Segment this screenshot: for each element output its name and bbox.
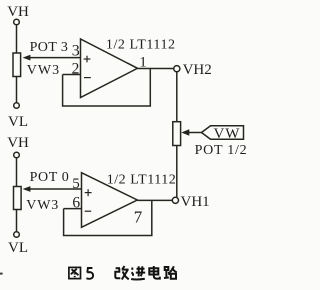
- op-amp U1A (1/2 LT1112): [81, 39, 138, 98]
- feedback wire U1A output to pin 2: [63, 69, 151, 107]
- node VL (bottom terminal of POT 3): [14, 103, 20, 109]
- plus input symbol U1A: [84, 56, 91, 63]
- wiper arrowhead into POT0: [23, 186, 31, 192]
- svg-text:VW3: VW3: [27, 63, 60, 78]
- feedback wire U1B output to pin 6: [64, 200, 152, 235]
- wire POT0 bottom to VL terminal: [16, 210, 18, 232]
- wire U1B pin 6 stub: [64, 208, 82, 210]
- svg-text:VH1: VH1: [181, 194, 210, 210]
- svg-text:1/2 LT1112: 1/2 LT1112: [107, 173, 177, 188]
- wiper arrowhead into POT1/2: [181, 129, 189, 135]
- svg-text:7: 7: [134, 207, 143, 226]
- wire U1B output to node VH1: [137, 199, 172, 201]
- caption 改 (hand-drawn glyph): [115, 266, 129, 280]
- wire POT3 bottom to VL terminal: [16, 77, 18, 103]
- caption figure number 5: [86, 268, 93, 279]
- potentiometer POT0 body: [14, 187, 22, 210]
- svg-text:POT 0: POT 0: [30, 170, 70, 185]
- wire VH terminal to POT3 top: [16, 25, 18, 53]
- wire VW tag to POT1/2 wiper: [189, 132, 202, 134]
- wire POT1/2 bottom to node VH1: [176, 146, 178, 198]
- wire VH terminal to POT0 top: [16, 158, 18, 187]
- svg-text:VW3: VW3: [26, 198, 59, 213]
- potentiometer POT3 body: [13, 53, 21, 77]
- svg-text:VH: VH: [7, 135, 29, 151]
- svg-text:1: 1: [139, 55, 147, 71]
- wire node VH2 to POT1/2 top: [176, 72, 178, 122]
- svg-text:3: 3: [72, 43, 80, 60]
- node VH (top terminal of POT 3): [14, 19, 20, 25]
- caption 图 (hand-drawn glyph): [69, 267, 81, 278]
- svg-text:VH: VH: [7, 4, 29, 20]
- svg-text:6: 6: [72, 194, 80, 211]
- caption 进 (hand-drawn glyph): [131, 266, 145, 279]
- node VH (top terminal of POT 0): [14, 152, 20, 158]
- potentiometer POT1/2 body: [173, 122, 181, 146]
- svg-text:VL: VL: [8, 240, 28, 256]
- wiper arrowhead into POT3: [23, 55, 31, 61]
- caption 电 (hand-drawn glyph): [149, 266, 160, 279]
- svg-text:VL: VL: [8, 114, 28, 130]
- node VH2: [174, 66, 180, 72]
- plus input symbol U1B: [85, 189, 92, 196]
- stray scan mark at left edge: [0, 273, 3, 275]
- caption 路 (hand-drawn glyph): [164, 266, 177, 279]
- net flag VW: [202, 126, 244, 139]
- minus input symbol U1A: [84, 77, 91, 79]
- wire U1A pin 2 stub: [63, 74, 81, 76]
- node VH1: [172, 197, 178, 203]
- node VL (bottom terminal of POT 0): [14, 232, 20, 238]
- svg-text:5: 5: [72, 176, 80, 192]
- svg-text:POT 1/2: POT 1/2: [195, 143, 248, 158]
- wire POT0 wiper to U1B pin 5: [30, 188, 82, 190]
- op-amp U1B (1/2 LT1112): [82, 173, 138, 228]
- svg-text:VW: VW: [214, 126, 241, 142]
- svg-text:VH2: VH2: [183, 62, 212, 78]
- svg-text:1/2 LT1112: 1/2 LT1112: [106, 38, 176, 53]
- svg-text:2: 2: [72, 61, 80, 78]
- wire U1A output to node VH2: [138, 68, 174, 70]
- minus input symbol U1B: [85, 210, 92, 212]
- wire POT3 wiper to U1A pin 3: [30, 57, 81, 59]
- svg-text:POT 3: POT 3: [30, 40, 69, 55]
